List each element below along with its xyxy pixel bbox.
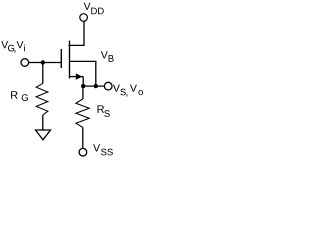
- label VDD: [84, 3, 104, 15]
- transistor M1 source line: [69, 76, 83, 78]
- terminal VSS: [79, 148, 87, 156]
- label VB: [101, 51, 114, 61]
- wire RS to VSS: [82, 127, 84, 148]
- resistor RS: [76, 99, 89, 127]
- terminal Vi input: [21, 59, 29, 67]
- label VG, Vi: [1, 41, 25, 53]
- junction dot source node: [81, 84, 85, 88]
- label VSS: [93, 144, 113, 155]
- junction dot bulk node: [94, 84, 98, 88]
- transistor M1 bulk line: [69, 60, 96, 62]
- terminal VDD: [80, 14, 88, 22]
- resistor RG: [36, 83, 48, 115]
- transistor M1 channel bar: [69, 41, 71, 79]
- transistor M1 source arrow: [76, 73, 83, 79]
- wire gate node to RG: [42, 63, 44, 84]
- terminal VS Vo: [104, 82, 112, 90]
- wire bulk down to node: [95, 61, 97, 86]
- wire node to RS: [82, 86, 84, 99]
- wire drain horizontal: [69, 44, 85, 46]
- wire source down to node: [82, 77, 84, 87]
- ground: [36, 130, 51, 140]
- label VS, Vo: [113, 85, 143, 97]
- wire gate: [28, 62, 61, 64]
- wire VDD to drain: [83, 21, 85, 45]
- junction dot gate node: [41, 60, 45, 64]
- label RS: [98, 105, 110, 117]
- transistor M1 gate bar: [60, 49, 62, 68]
- label RG: [11, 91, 28, 101]
- wire node to output terminal: [83, 85, 104, 87]
- wire RG to ground: [42, 115, 44, 130]
